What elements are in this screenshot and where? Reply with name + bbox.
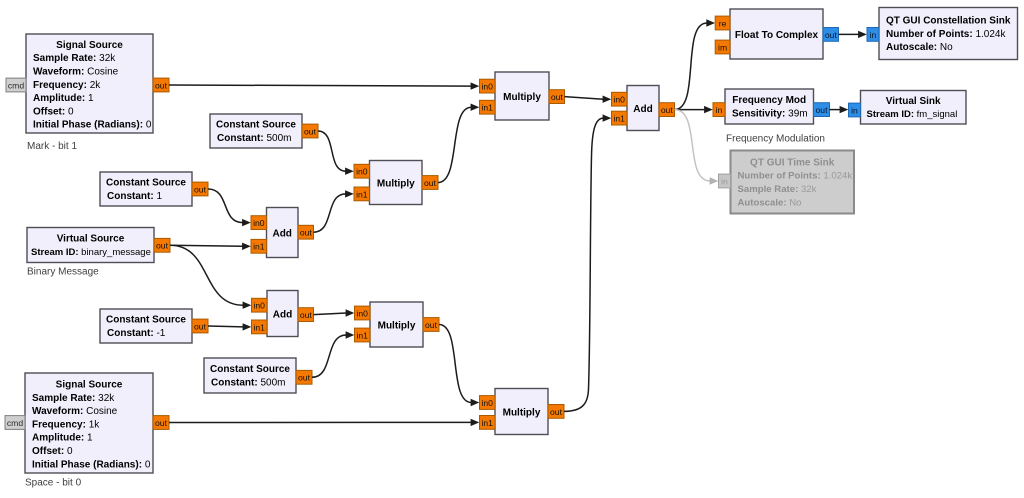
svg-text:Frequency: 1k: Frequency: 1k xyxy=(32,419,100,430)
block Signal Source (Space - bit 0) xyxy=(25,373,153,473)
svg-text:in1: in1 xyxy=(253,242,265,252)
svg-text:cmd: cmd xyxy=(8,80,24,90)
port out of Add A3 xyxy=(659,103,675,117)
svg-text:QT GUI Constellation Sink: QT GUI Constellation Sink xyxy=(886,16,1011,27)
svg-text:Add: Add xyxy=(273,310,292,321)
block Virtual Source (binary_message) xyxy=(27,228,154,263)
svg-text:in1: in1 xyxy=(481,418,493,428)
block Add A2 (space offset) xyxy=(267,291,298,337)
svg-text:in0: in0 xyxy=(356,167,368,177)
label Frequency Modulation xyxy=(726,134,825,145)
svg-text:out: out xyxy=(425,320,438,330)
svg-text:in: in xyxy=(851,105,858,115)
port cmd of Signal Source (Space) xyxy=(5,416,25,430)
port in0 of Multiply M1 xyxy=(354,164,370,178)
svg-text:in: in xyxy=(716,105,723,115)
wire Add A3.out to Frequency Mod.in xyxy=(675,106,713,113)
svg-text:Constant Source: Constant Source xyxy=(106,178,186,189)
svg-text:out: out xyxy=(298,373,311,383)
svg-text:out: out xyxy=(304,126,317,136)
svg-text:in: in xyxy=(721,176,728,186)
svg-text:Multiply: Multiply xyxy=(378,321,416,332)
svg-text:Constant: 1: Constant: 1 xyxy=(107,191,162,202)
svg-text:Autoscale: No: Autoscale: No xyxy=(738,197,802,208)
svg-text:Constant Source: Constant Source xyxy=(106,315,186,326)
wire Add A3.out to QT GUI Time Sink.in (disabled) xyxy=(675,110,719,185)
port out of Virtual Source xyxy=(154,238,170,252)
svg-text:out: out xyxy=(424,178,437,188)
svg-text:Constant Source: Constant Source xyxy=(216,120,296,131)
svg-text:Add: Add xyxy=(272,229,291,240)
svg-text:Offset: 0: Offset: 0 xyxy=(33,106,74,117)
svg-text:Add: Add xyxy=(633,104,652,115)
svg-text:in0: in0 xyxy=(481,82,493,92)
port out of Signal Source (Space) xyxy=(153,416,169,430)
svg-text:Constant: 500m: Constant: 500m xyxy=(211,378,285,389)
wire Virtual Source.out to Add A1.in1 xyxy=(170,243,251,250)
port in0 of Add A2 xyxy=(252,298,268,312)
svg-text:out: out xyxy=(300,310,313,320)
block Signal Source (Mark - bit 1) xyxy=(26,34,153,133)
block Constant Source (500m, lower) xyxy=(204,358,296,393)
label Space - bit 0 xyxy=(25,478,82,489)
svg-text:out: out xyxy=(661,105,674,115)
svg-text:Virtual Sink: Virtual Sink xyxy=(886,96,941,107)
svg-text:out: out xyxy=(816,105,829,115)
port in1 of Multiply M1 xyxy=(354,187,370,201)
svg-text:Mark - bit 1: Mark - bit 1 xyxy=(27,141,77,152)
block Multiply M2 (space branch) xyxy=(370,302,423,347)
svg-text:in1: in1 xyxy=(356,330,368,340)
svg-text:out: out xyxy=(551,92,564,102)
svg-text:Constant: 500m: Constant: 500m xyxy=(217,133,291,144)
svg-text:out: out xyxy=(194,321,207,331)
label Binary Message xyxy=(27,267,99,278)
block Frequency Mod xyxy=(725,89,814,124)
svg-text:Float To Complex: Float To Complex xyxy=(735,30,819,41)
svg-text:in0: in0 xyxy=(356,308,368,318)
port in of QT GUI Time Sink (disabled) xyxy=(719,174,731,188)
block Multiply M1 (mark branch) xyxy=(370,161,423,205)
port in of Frequency Mod xyxy=(713,103,725,117)
svg-text:in1: in1 xyxy=(253,322,265,332)
wire Add A1.out to Multiply M1.in1 xyxy=(314,190,354,232)
svg-text:out: out xyxy=(550,407,563,417)
wire Multiply M1.out to Multiply MT.in1 xyxy=(438,104,479,183)
svg-text:Constant Source: Constant Source xyxy=(210,364,290,375)
svg-text:Virtual Source: Virtual Source xyxy=(57,234,125,245)
port out of Add A2 xyxy=(298,308,314,322)
svg-text:Sample Rate: 32k: Sample Rate: 32k xyxy=(738,184,817,195)
port out of Frequency Mod xyxy=(814,103,830,117)
wire Constant Source (500m upper).out to Multiply M1.in0 xyxy=(318,131,354,175)
svg-text:Number of Points: 1.024k: Number of Points: 1.024k xyxy=(738,171,853,182)
svg-text:Multiply: Multiply xyxy=(503,408,541,419)
block Add A1 (mark offset) xyxy=(267,208,299,258)
svg-text:Frequency Mod: Frequency Mod xyxy=(732,95,806,106)
svg-text:re: re xyxy=(719,18,727,28)
port re of Float To Complex xyxy=(715,16,730,30)
svg-text:out: out xyxy=(300,228,313,238)
port out of Constant Source (-1) xyxy=(192,319,208,333)
svg-text:Multiply: Multiply xyxy=(503,92,541,103)
svg-text:Amplitude: 1: Amplitude: 1 xyxy=(33,93,94,104)
svg-text:out: out xyxy=(156,241,169,251)
svg-text:Initial Phase (Radians): 0: Initial Phase (Radians): 0 xyxy=(33,120,152,131)
svg-text:out: out xyxy=(155,80,168,90)
svg-text:in0: in0 xyxy=(253,301,265,311)
block Constant Source (1) xyxy=(100,172,192,206)
svg-text:out: out xyxy=(194,184,207,194)
svg-text:Constant: -1: Constant: -1 xyxy=(107,328,166,339)
wire Multiply MB.out to Add A3.in1 xyxy=(564,114,611,411)
svg-text:Sensitivity: 39m: Sensitivity: 39m xyxy=(732,109,808,120)
svg-text:Offset: 0: Offset: 0 xyxy=(32,446,73,457)
svg-text:Sample Rate: 32k: Sample Rate: 32k xyxy=(33,53,116,64)
port in of QT GUI Constellation Sink xyxy=(867,28,879,42)
wire Constant Source (-1).out to Add A2.in1 xyxy=(208,323,251,330)
wire Multiply M2.out to Multiply MB.in0 xyxy=(439,325,479,407)
wire Add A2.out to Multiply M2.in0 xyxy=(314,309,355,316)
port out of Multiply M2 xyxy=(423,318,439,332)
block Add A3 (combiner) xyxy=(627,86,659,131)
svg-text:Signal Source: Signal Source xyxy=(56,379,123,390)
svg-text:in0: in0 xyxy=(613,95,625,105)
port in0 of Multiply MB xyxy=(480,396,496,410)
svg-text:QT GUI Time Sink: QT GUI Time Sink xyxy=(750,157,835,168)
wire Frequency Mod.out to Virtual Sink.in xyxy=(830,106,849,113)
block Virtual Sink (fm_signal) xyxy=(861,91,967,125)
wire Constant Source (500m lower).out to Multiply M2.in1 xyxy=(312,331,354,377)
svg-text:in1: in1 xyxy=(356,189,368,199)
block Float To Complex xyxy=(730,9,823,59)
wire Float To Complex.out to QT GUI Constellation Sink.in xyxy=(839,31,867,38)
port in1 of Multiply MB xyxy=(480,416,496,430)
svg-text:Signal Source: Signal Source xyxy=(56,40,123,51)
port out of Add A1 xyxy=(298,225,314,239)
port cmd of Signal Source (Mark) xyxy=(6,78,26,92)
svg-text:Amplitude: 1: Amplitude: 1 xyxy=(32,433,93,444)
port im of Float To Complex xyxy=(715,40,730,54)
svg-text:im: im xyxy=(718,42,727,52)
svg-text:Binary Message: Binary Message xyxy=(27,267,99,278)
label Mark - bit 1 xyxy=(27,141,77,152)
svg-text:Frequency Modulation: Frequency Modulation xyxy=(726,134,825,145)
block Constant Source (-1) xyxy=(100,309,192,343)
wire Add A3.out to Float To Complex.re xyxy=(675,19,716,109)
svg-text:in0: in0 xyxy=(253,218,265,228)
svg-text:Number of Points: 1.024k: Number of Points: 1.024k xyxy=(886,29,1006,40)
port out of Signal Source (Mark) xyxy=(153,78,169,92)
svg-text:cmd: cmd xyxy=(7,418,23,428)
port in0 of Multiply MT xyxy=(480,79,496,93)
port in of Virtual Sink xyxy=(849,103,861,117)
port in1 of Add A2 xyxy=(252,320,268,334)
svg-text:out: out xyxy=(825,30,838,40)
port in1 of Add A3 xyxy=(612,111,628,125)
svg-text:in1: in1 xyxy=(481,103,493,113)
svg-text:in: in xyxy=(870,30,877,40)
svg-text:in0: in0 xyxy=(481,398,493,408)
port in1 of Multiply MT xyxy=(480,100,496,114)
port in0 of Multiply M2 xyxy=(355,306,371,320)
block Multiply MT (mark carrier) xyxy=(495,72,549,120)
svg-text:Stream ID: binary_message: Stream ID: binary_message xyxy=(31,247,151,258)
wire Multiply MT.out to Add A3.in0 xyxy=(565,96,612,103)
port out of Multiply M1 xyxy=(422,176,438,190)
svg-text:out: out xyxy=(155,418,168,428)
svg-text:Multiply: Multiply xyxy=(377,179,415,190)
wire Signal Source (Mark).out to Multiply MT.in0 xyxy=(169,82,479,89)
wire Virtual Source.out to Add A2.in0 xyxy=(170,245,251,309)
svg-text:in1: in1 xyxy=(613,114,625,124)
wire Constant Source (1).out to Add A1.in0 xyxy=(208,189,251,226)
port out of Constant Source (1) xyxy=(192,182,208,196)
port out of Multiply MT xyxy=(549,90,565,104)
svg-text:Sample Rate: 32k: Sample Rate: 32k xyxy=(32,393,115,404)
port in0 of Add A1 xyxy=(251,216,267,230)
wire Signal Source (Space).out to Multiply MB.in1 xyxy=(169,419,479,426)
port in0 of Add A3 xyxy=(612,92,628,106)
port out of Float To Complex xyxy=(823,28,839,42)
svg-text:Autoscale: No: Autoscale: No xyxy=(886,42,953,53)
port out of Constant Source (500m, upper) xyxy=(302,124,318,138)
svg-text:Frequency: 2k: Frequency: 2k xyxy=(33,80,101,91)
port out of Multiply MB xyxy=(548,405,564,419)
svg-text:Waveform: Cosine: Waveform: Cosine xyxy=(32,406,118,417)
port out of Constant Source (500m, lower) xyxy=(296,370,312,384)
block QT GUI Constellation Sink xyxy=(879,8,1018,60)
svg-text:Space - bit 0: Space - bit 0 xyxy=(25,478,82,489)
port in1 of Multiply M2 xyxy=(355,328,371,342)
block Constant Source (500m, upper) xyxy=(210,114,302,148)
svg-text:Stream ID: fm_signal: Stream ID: fm_signal xyxy=(867,109,958,120)
block QT GUI Time Sink (disabled) xyxy=(731,151,855,214)
svg-text:Initial Phase (Radians): 0: Initial Phase (Radians): 0 xyxy=(32,459,151,470)
svg-text:Waveform: Cosine: Waveform: Cosine xyxy=(33,67,119,78)
block Multiply MB (space carrier) xyxy=(495,389,548,435)
port in1 of Add A1 xyxy=(251,239,267,253)
